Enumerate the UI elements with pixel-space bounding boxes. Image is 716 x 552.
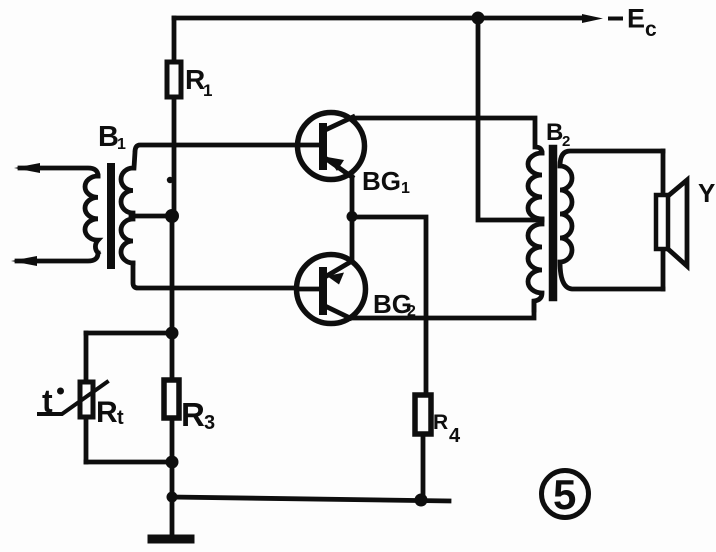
transformer B1 secondary upper winding bbox=[121, 168, 133, 213]
thermistor Rt bbox=[80, 382, 93, 417]
svg-text:B: B bbox=[546, 119, 563, 146]
svg-text:3: 3 bbox=[204, 412, 215, 434]
wire emitter junction to R4 bbox=[352, 217, 426, 395]
arrowhead input bottom bbox=[11, 256, 37, 266]
node branch top junction bbox=[166, 327, 179, 340]
arrowhead to -Ec terminal bbox=[582, 14, 603, 23]
wire thermistor branch left vertical bbox=[84, 333, 89, 462]
transistor BG1 bbox=[298, 113, 365, 180]
node bottom-left junction bbox=[167, 492, 178, 503]
svg-text:2: 2 bbox=[407, 303, 416, 320]
svg-text:c: c bbox=[645, 18, 657, 41]
transformer B2 core bbox=[549, 149, 558, 297]
svg-text:R: R bbox=[433, 411, 448, 434]
wire B1 secondary bottom lead to BG2 base bbox=[133, 263, 320, 288]
wire BG1 collector to B2 primary top bbox=[350, 118, 542, 153]
wire main bias vertical (R1 bottom to ground) bbox=[172, 97, 174, 535]
resistor R4 bbox=[415, 395, 431, 434]
transformer B1 primary winding bbox=[85, 176, 98, 253]
transformer B1 core bbox=[107, 167, 115, 265]
node small blob on bias line bbox=[167, 177, 173, 183]
transistor BG2 bbox=[297, 255, 366, 324]
svg-text:R: R bbox=[96, 396, 118, 429]
wire R4 bottom lead bbox=[421, 434, 426, 500]
svg-text:E: E bbox=[627, 4, 645, 34]
svg-text:2: 2 bbox=[562, 133, 570, 150]
wire B1 secondary top lead to BG1 base bbox=[134, 145, 320, 168]
resistor R1 bbox=[167, 62, 181, 97]
wire BG2 emitter up to junction bbox=[350, 217, 355, 261]
wire top supply rail bbox=[174, 16, 586, 21]
transformer B1 secondary lower winding bbox=[121, 219, 133, 263]
transformer B2 primary upper winding bbox=[528, 153, 542, 219]
thermistor diagonal strike bbox=[39, 382, 107, 414]
arrowhead input top bbox=[14, 163, 40, 173]
svg-text:R: R bbox=[181, 396, 205, 433]
svg-text:t: t bbox=[42, 383, 53, 419]
transformer B2 primary lower winding bbox=[528, 219, 542, 310]
svg-text:4: 4 bbox=[449, 425, 461, 447]
transformer B2 secondary winding bbox=[560, 151, 663, 289]
wire B1 center tap bbox=[131, 214, 172, 219]
wire BG2 collector to B2 primary bottom bbox=[350, 303, 534, 318]
resistor R3 bbox=[164, 380, 179, 418]
wire speaker vertical bbox=[661, 151, 666, 289]
svg-text:1: 1 bbox=[401, 180, 410, 197]
wire top rail corner down to R1 bbox=[172, 18, 177, 62]
svg-text:B: B bbox=[98, 121, 119, 153]
svg-text:Y: Y bbox=[698, 178, 715, 208]
speaker Y bbox=[656, 180, 687, 266]
node center-tap junction bbox=[165, 209, 179, 223]
figure number circled 5 bbox=[542, 471, 589, 518]
node junction on top rail bbox=[472, 12, 485, 25]
svg-text:BG: BG bbox=[362, 166, 401, 196]
svg-text:t: t bbox=[117, 407, 124, 429]
node emitter junction bbox=[347, 211, 358, 222]
wire thermistor branch bottom bbox=[86, 460, 172, 465]
wire from top rail down to B2 primary center tap bbox=[478, 18, 542, 220]
node R4 bottom junction bbox=[415, 494, 428, 507]
ground symbol bbox=[152, 535, 190, 544]
wire thermistor branch top bbox=[86, 331, 172, 336]
wire B1 primary top lead bbox=[20, 168, 98, 176]
wire BG1 emitter down to emitter junction bbox=[350, 177, 355, 217]
svg-text:5: 5 bbox=[553, 471, 576, 518]
wire bottom return rail bbox=[172, 497, 449, 501]
wire B1 primary bottom lead bbox=[17, 253, 98, 261]
label -Ec bbox=[610, 17, 621, 21]
svg-text:1: 1 bbox=[203, 81, 212, 100]
svg-text:1: 1 bbox=[117, 136, 126, 153]
node branch bottom junction bbox=[166, 456, 179, 469]
